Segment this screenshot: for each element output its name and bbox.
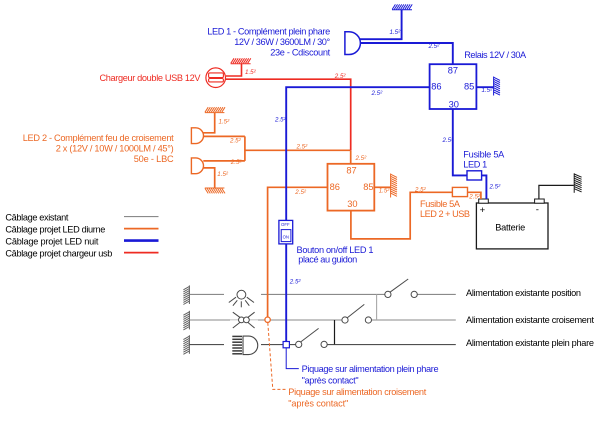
svg-text:2.5²: 2.5² [414, 186, 427, 193]
label piquage croisement [288, 387, 426, 408]
svg-text:87: 87 [448, 65, 458, 75]
svg-text:1.5²: 1.5² [482, 87, 494, 94]
node plein phare pickup (square) [283, 342, 289, 348]
lamp LED1 [345, 32, 360, 55]
wire switch to square pickup [285, 244, 287, 342]
svg-text:85: 85 [363, 182, 373, 192]
svg-text:Alimentation existante positio: Alimentation existante position [466, 288, 581, 298]
battery body [476, 203, 548, 249]
legend line LED nuit [124, 239, 159, 242]
lamp LED2 b [191, 158, 203, 174]
legend line existing [124, 216, 159, 218]
svg-text:85: 85 [464, 81, 474, 91]
fuse F2 LED2+USB [452, 187, 467, 196]
charger symbol (circle with two USB ports) [206, 68, 226, 88]
svg-text:2.5²: 2.5² [274, 116, 287, 123]
lamp croisement (two circles with X) [233, 312, 255, 328]
wire charger to junction [226, 79, 351, 150]
svg-text:2.5²: 2.5² [371, 90, 384, 97]
wire relay 85 to ground [476, 86, 493, 88]
svg-text:Bouton on/off LED 1: Bouton on/off LED 1 [297, 245, 374, 255]
wire junction into relay 87 [350, 150, 352, 163]
svg-text:Fusible 5A: Fusible 5A [463, 149, 505, 159]
lamp LED2 a [191, 128, 203, 144]
wire bus LED2 to junction [245, 149, 351, 151]
fuse F1 LED1 [467, 171, 482, 180]
svg-text:Alimentation existante plein p: Alimentation existante plein phare [466, 338, 594, 348]
svg-text:2.5²: 2.5² [334, 73, 347, 80]
wire lamp2b upper terminal [203, 160, 245, 162]
wire vertical link row1-row2 [376, 294, 378, 320]
svg-text:Câblage existant: Câblage existant [5, 212, 68, 222]
svg-text:Batterie: Batterie [495, 222, 525, 232]
label piquage plein phare [302, 364, 439, 385]
svg-text:2.5²: 2.5² [230, 159, 243, 166]
wire relay 30 to fuse LED2 [351, 192, 453, 239]
gauge labels blue [274, 29, 501, 286]
legend line LED diurne [124, 228, 159, 230]
wire fuse LED2 to battery plus [468, 192, 481, 199]
wire lamp2a upper terminal to top ground [203, 113, 214, 133]
svg-text:Piquage sur alimentation crois: Piquage sur alimentation croisement [288, 387, 426, 397]
label fusible LED1 [463, 149, 505, 169]
label LED2 block [23, 133, 174, 164]
battery terminal plus [479, 199, 489, 203]
svg-text:87: 87 [346, 166, 356, 176]
svg-text:2.5²: 2.5² [442, 137, 455, 144]
wire pickup square to label [286, 348, 299, 369]
ground existing plein phare (left row 3) [183, 335, 189, 354]
ground LED1 top [392, 4, 412, 9]
ground LED2 top [205, 107, 225, 112]
svg-text:2 x (12V / 10W / 1000LM / 45°): 2 x (12V / 10W / 1000LM / 45°) [56, 143, 174, 153]
svg-text:2.5²: 2.5² [294, 189, 307, 196]
wire lamp2b lower terminal to bottom ground [203, 168, 214, 188]
ground existing croisement (left row 2) [183, 311, 189, 330]
svg-text:-: - [536, 204, 539, 215]
gauge labels red [245, 69, 346, 80]
svg-text:86: 86 [330, 182, 340, 192]
ground LED2 bottom [205, 188, 225, 193]
svg-text:Câblage projet chargeur usb: Câblage projet chargeur usb [5, 248, 112, 258]
switch plein phare [296, 328, 328, 347]
svg-text:Piquage sur alimentation plein: Piquage sur alimentation plein phare [302, 364, 439, 374]
svg-text:2.5²: 2.5² [229, 137, 242, 144]
label LED1 block [207, 27, 330, 58]
svg-text:2.5²: 2.5² [296, 144, 309, 151]
wire existing position row [189, 293, 455, 295]
svg-text:50e - LBC: 50e - LBC [134, 154, 174, 164]
svg-text:1.5²: 1.5² [390, 29, 402, 36]
svg-text:23e - Cdiscount: 23e - Cdiscount [270, 47, 330, 57]
switch S1 on/off LED1 [279, 220, 293, 244]
label bouton [297, 245, 374, 265]
svg-text:Câblage projet LED diurne: Câblage projet LED diurne [5, 224, 105, 234]
switch croisement [342, 304, 372, 323]
svg-text:Chargeur double USB 12V: Chargeur double USB 12V [100, 73, 202, 83]
wire existing croisement row [189, 319, 455, 321]
wire collector vertical [244, 136, 246, 161]
svg-text:Fusible 5A: Fusible 5A [420, 199, 461, 209]
svg-text:+: + [480, 205, 486, 216]
svg-text:2.5²: 2.5² [355, 155, 368, 162]
wire relay 86 to croisement pickup [268, 187, 328, 317]
svg-text:LED 1 - Complément plein phare: LED 1 - Complément plein phare [207, 27, 330, 37]
svg-text:OFF: OFF [281, 222, 290, 227]
wire lamp1 lower terminal to relay 87 [359, 43, 453, 64]
label fusible LED2 [420, 199, 470, 219]
svg-text:LED 2 - Complément feu de croi: LED 2 - Complément feu de croisement [23, 133, 174, 143]
svg-text:12V / 36W / 3600LM / 30°: 12V / 36W / 3600LM / 30° [234, 37, 330, 47]
lamp plein phare (striped headlight) [232, 336, 242, 353]
svg-text:30: 30 [347, 199, 357, 209]
relay U2 LED2 [328, 164, 375, 211]
svg-text:Câblage projet LED nuit: Câblage projet LED nuit [5, 236, 98, 246]
switch position (blade + contacts) [385, 279, 418, 298]
node croisement pickup (circle) [265, 317, 270, 322]
ground existing position (left row 1) [183, 285, 189, 304]
wire charger ground stem [226, 64, 242, 76]
wire dashed pickup to label [268, 323, 286, 390]
svg-text:LED 1: LED 1 [463, 159, 487, 169]
legend line chargeur usb [124, 252, 159, 254]
lamp position (bulb with rays) [229, 290, 254, 307]
relay U1 LED1 [430, 64, 477, 109]
wire relay 85 to ground [375, 186, 391, 188]
ground charger [231, 58, 251, 63]
svg-text:2.5²: 2.5² [468, 194, 481, 201]
ground relay U1 85 [494, 77, 500, 96]
ground relay U2 85 [391, 174, 397, 198]
wire lamp2a lower terminal to collector [203, 135, 245, 137]
svg-text:86: 86 [431, 81, 441, 91]
svg-text:2.5²: 2.5² [289, 279, 302, 286]
wire existing plein phare row [189, 344, 455, 346]
wire fuse LED1 to battery plus [482, 175, 487, 199]
svg-text:2.5²: 2.5² [428, 43, 441, 50]
svg-text:2.5²: 2.5² [489, 183, 502, 190]
svg-text:1.5²: 1.5² [379, 188, 391, 195]
svg-text:LED 2 + USB: LED 2 + USB [420, 209, 470, 219]
svg-text:placé au guidon: placé au guidon [298, 255, 357, 265]
wire vertical link row2-row3 [334, 320, 336, 344]
wire relay 30 to fuse LED1 [453, 109, 467, 175]
wire lamp1 upper terminal to ground [359, 10, 402, 39]
gauge labels orange [217, 119, 481, 201]
svg-text:"après contact": "après contact" [288, 398, 348, 408]
svg-text:ON: ON [283, 234, 289, 239]
svg-text:1.5²: 1.5² [219, 119, 231, 126]
wire battery minus to ground [539, 185, 574, 199]
battery terminal minus [535, 199, 545, 203]
svg-text:"après contact": "après contact" [302, 376, 359, 386]
svg-text:30: 30 [449, 100, 459, 110]
svg-text:Relais 12V / 30A: Relais 12V / 30A [464, 50, 527, 60]
svg-text:Alimentation existante croisem: Alimentation existante croisement [466, 315, 594, 325]
ground battery [574, 173, 581, 193]
svg-text:1.5²: 1.5² [217, 171, 229, 178]
svg-text:1.5²: 1.5² [245, 69, 257, 76]
wire relay 86 to switch and down to plein phare pickup [286, 87, 429, 220]
